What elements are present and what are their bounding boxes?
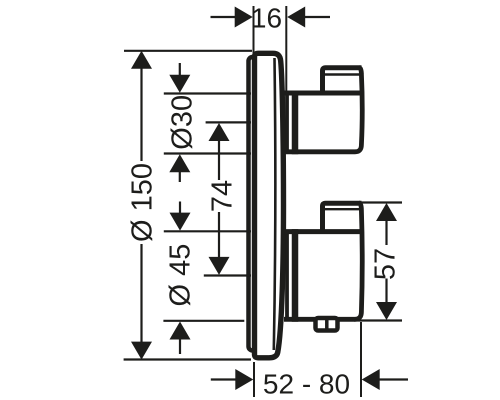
svg-text:74: 74 bbox=[207, 180, 239, 212]
svg-text:52 - 80: 52 - 80 bbox=[263, 369, 350, 400]
svg-text:57: 57 bbox=[370, 248, 402, 280]
svg-text:Ø 150: Ø 150 bbox=[127, 163, 159, 242]
svg-text:Ø 45: Ø 45 bbox=[165, 244, 197, 307]
svg-text:16: 16 bbox=[251, 3, 282, 34]
svg-text:Ø30: Ø30 bbox=[167, 95, 199, 150]
